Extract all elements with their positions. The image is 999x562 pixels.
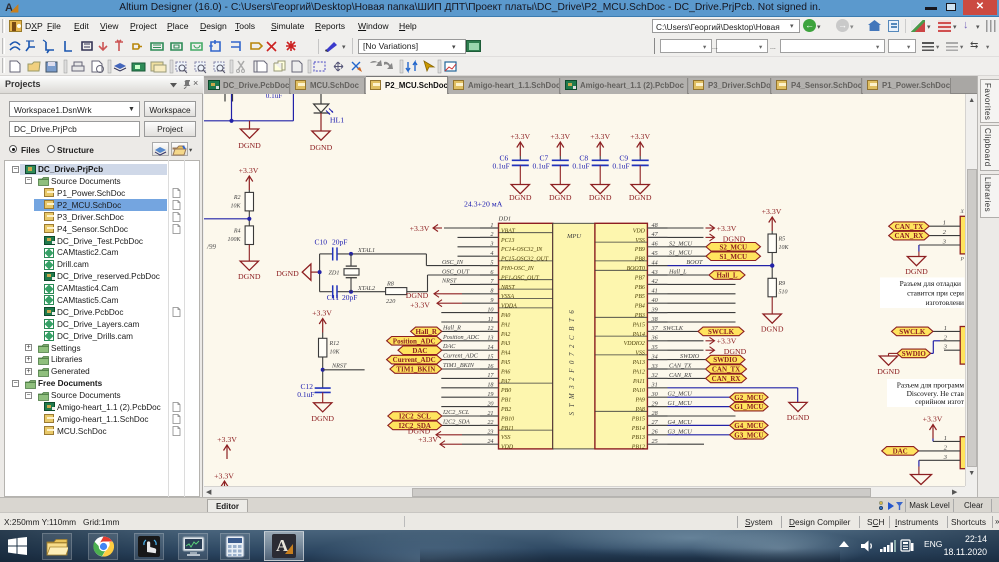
svg-text:43: 43	[652, 268, 658, 275]
svg-text:+3.3V: +3.3V	[717, 336, 737, 345]
junction XTAL2	[349, 277, 353, 293]
svg-text:G3_MCU: G3_MCU	[734, 431, 763, 439]
port tag CAN_RX (connector)	[889, 231, 930, 240]
svg-text:NRST: NRST	[441, 277, 457, 284]
capacitor C6	[493, 153, 529, 170]
svg-text:PH0-OSC_IN: PH0-OSC_IN	[500, 266, 535, 272]
svg-text:26: 26	[652, 428, 659, 435]
wire R9 to ground	[771, 296, 773, 313]
svg-text:+3.3V: +3.3V	[418, 435, 438, 444]
svg-text:+3.3V: +3.3V	[410, 223, 430, 232]
wire blue to left edge	[204, 217, 249, 219]
svg-text:PB7: PB7	[634, 275, 646, 281]
junction crystal loop DGND	[318, 270, 322, 274]
wire pin15 Current_ADC	[442, 358, 480, 360]
wire pin37 SWCLK	[663, 324, 698, 331]
connector XP DAC (cut at edge)	[960, 436, 968, 468]
net label I2C2_SDA	[442, 418, 470, 425]
svg-text:MPU: MPU	[566, 233, 582, 240]
svg-text:G2_MCU: G2_MCU	[668, 390, 693, 397]
wire pin28	[668, 415, 736, 417]
capacitor C9	[612, 153, 648, 170]
net label DAC	[442, 343, 456, 350]
svg-text:CAN_RX: CAN_RX	[669, 371, 692, 378]
svg-text:40: 40	[652, 297, 659, 304]
port tag DAC (connector)	[882, 446, 919, 455]
connector2 pin1	[933, 324, 960, 331]
svg-text:CAN_RX: CAN_RX	[895, 232, 924, 240]
svg-text:PA7: PA7	[500, 378, 511, 384]
power port +3.3V pin48 VDD	[668, 223, 737, 232]
svg-text:0.1uF: 0.1uF	[493, 161, 510, 170]
junction top-left	[229, 118, 233, 122]
connector3 pin1	[933, 434, 960, 441]
svg-text:+3.3V: +3.3V	[410, 300, 430, 309]
svg-text:23: 23	[487, 428, 493, 435]
svg-text:0.1uF: 0.1uF	[533, 161, 550, 170]
svg-text:PB5: PB5	[634, 294, 645, 300]
capacitor C7	[533, 153, 569, 170]
svg-text:NRST: NRST	[331, 362, 347, 369]
power port +3.3V above C9	[630, 132, 650, 160]
svg-text:PA10: PA10	[632, 388, 645, 394]
resistor R8	[386, 280, 407, 305]
svg-text:PF1-OSC_OUT: PF1-OSC_OUT	[500, 275, 540, 281]
crystal ZD1	[328, 266, 359, 278]
wire pin22 I2C2_SDA	[442, 424, 480, 426]
svg-text:12: 12	[487, 325, 493, 332]
svg-text:PB12: PB12	[631, 444, 645, 450]
power port +3.3V above R12	[312, 308, 332, 338]
port tag I2C2_SDA	[388, 421, 442, 430]
svg-text:PB15: PB15	[631, 416, 645, 422]
wire pin3 PC14	[458, 245, 481, 247]
wire pin42	[668, 283, 736, 285]
svg-text:VSS: VSS	[635, 237, 645, 243]
port tag SWCLK (MCU)	[698, 327, 744, 336]
designator DD1	[498, 215, 512, 222]
svg-text:PA9: PA9	[635, 397, 645, 403]
svg-text:C11: C11	[327, 292, 339, 301]
svg-text:1: 1	[944, 434, 947, 441]
svg-text:9: 9	[490, 297, 493, 304]
svg-text:DGND: DGND	[311, 413, 334, 422]
svg-text:+3.3V: +3.3V	[923, 414, 943, 423]
ground DGND connector1	[905, 256, 928, 276]
svg-text:+3.3V: +3.3V	[239, 166, 259, 175]
svg-text:24.3+20 мА: 24.3+20 мА	[464, 199, 503, 208]
svg-text:CAN_TX: CAN_TX	[712, 365, 740, 373]
ground DGND below R4	[238, 261, 261, 281]
svg-text:PA2: PA2	[500, 331, 510, 337]
net label OSC_IN	[442, 259, 464, 266]
wire pin25	[668, 443, 705, 445]
wire R5 to junction	[771, 252, 773, 278]
svg-text:3: 3	[942, 238, 946, 245]
svg-text:20: 20	[487, 400, 494, 407]
svg-text:46: 46	[652, 240, 659, 247]
svg-text:21: 21	[487, 409, 493, 416]
svg-text:VDD: VDD	[501, 444, 514, 450]
wire C7 to ground	[559, 165, 561, 184]
net label NRST (at R12)	[331, 362, 347, 369]
wire connector3 pin3 to ground	[918, 460, 920, 474]
svg-text:PA14: PA14	[632, 331, 645, 337]
ground port DGND pin8 VSSA	[406, 290, 480, 300]
svg-text:DAC: DAC	[442, 343, 456, 350]
svg-text:24: 24	[487, 438, 493, 445]
svg-text:41: 41	[652, 287, 658, 294]
capacitor C12	[297, 382, 330, 399]
svg-text:PB14: PB14	[631, 425, 645, 431]
svg-text:5: 5	[490, 259, 493, 266]
wire pin39	[668, 311, 736, 313]
svg-text:+3.3V: +3.3V	[590, 132, 610, 141]
wire pin32 CAN_RX	[668, 371, 706, 378]
svg-text:R12: R12	[329, 340, 340, 346]
port tag CAN_TX (connector)	[889, 221, 930, 230]
LED HL1	[314, 94, 345, 125]
net label XTAL1	[357, 247, 375, 254]
svg-text:48: 48	[652, 221, 659, 228]
svg-text:PA4: PA4	[500, 350, 510, 356]
resistor R5	[768, 234, 790, 253]
svg-text:VSS: VSS	[501, 435, 511, 441]
svg-text:PC14-OSC32_IN: PC14-OSC32_IN	[500, 247, 543, 253]
power port +3.3V pin36 VDDIO2	[668, 336, 737, 345]
svg-text:PC13: PC13	[500, 237, 514, 243]
svg-text:XTAL2: XTAL2	[357, 284, 375, 291]
svg-text:PB0: PB0	[500, 388, 511, 394]
wire pin13 Position_ADC	[442, 339, 480, 341]
svg-text:19: 19	[487, 391, 493, 398]
wire pin38	[668, 321, 736, 323]
wire pin2 PC13	[458, 236, 481, 238]
wire R12 to C12 junction	[322, 357, 324, 388]
port tag SWCLK (connector)	[892, 327, 934, 336]
wire pin45 S1_MCU	[668, 249, 707, 256]
wire XTAL1 to OSC_IN	[426, 253, 480, 265]
power port +3.3V above C6	[510, 132, 530, 160]
svg-text:+3.3V: +3.3V	[550, 132, 570, 141]
ground DGND below C7	[549, 184, 572, 201]
wire pin26 G3_MCU	[668, 428, 730, 435]
svg-text:SWDIO: SWDIO	[713, 356, 738, 364]
wire pin34 SWDIO	[668, 353, 709, 360]
svg-text:10: 10	[487, 306, 494, 313]
svg-text:R4: R4	[233, 227, 241, 234]
resistor R12	[319, 338, 341, 357]
svg-text:SWCLK: SWCLK	[899, 328, 926, 336]
wire crystal loop	[320, 253, 427, 291]
svg-text:PA6: PA6	[500, 369, 510, 375]
svg-text:G3_MCU: G3_MCU	[668, 428, 693, 435]
svg-text:PB3: PB3	[634, 313, 645, 319]
annotation text block 1	[880, 277, 965, 308]
net label Position_ADC	[442, 333, 480, 340]
svg-text:BOOT0: BOOT0	[627, 266, 645, 272]
svg-text:28: 28	[652, 409, 659, 416]
port tag G1_MCU	[730, 402, 769, 411]
svg-text:G1_MCU: G1_MCU	[734, 403, 763, 411]
svg-text:R2: R2	[233, 194, 241, 200]
port tag CAN_RX (MCU)	[706, 374, 747, 383]
svg-text:25: 25	[652, 438, 658, 445]
net label XTAL2	[357, 284, 375, 291]
svg-text:Position_ADC: Position_ADC	[442, 333, 480, 340]
svg-text:OSC_OUT: OSC_OUT	[442, 268, 470, 275]
wire pin18	[441, 386, 480, 388]
svg-text:DGND: DGND	[509, 192, 532, 201]
wire pin16 TIM1_BKIN	[442, 368, 480, 370]
capacitor C8	[572, 153, 608, 170]
svg-text:15: 15	[487, 353, 493, 360]
port tag SWDIO (MCU)	[706, 355, 745, 364]
ground DGND crystal (left-pointing)	[276, 264, 319, 280]
wire C12 to ground	[322, 392, 324, 402]
wire pin31 PA10 to ground	[668, 387, 798, 402]
svg-text:XTAL1: XTAL1	[357, 247, 375, 254]
port tag DAC	[398, 345, 442, 354]
svg-text:CAN_TX: CAN_TX	[669, 362, 692, 369]
svg-text:PB4: PB4	[634, 303, 645, 309]
svg-text:DGND: DGND	[276, 269, 299, 278]
svg-text:18: 18	[487, 381, 494, 388]
part number fragment /99	[206, 243, 216, 251]
wire pin19	[441, 396, 480, 398]
svg-text:3: 3	[943, 453, 947, 460]
svg-text:PC15-OSC32_OUT: PC15-OSC32_OUT	[500, 256, 549, 262]
svg-text:G4_MCU: G4_MCU	[668, 418, 693, 425]
svg-text:27: 27	[652, 419, 659, 426]
svg-text:STM32F072CBT6: STM32F072CBT6	[569, 305, 576, 415]
svg-text:CAN_RX: CAN_RX	[712, 375, 741, 383]
svg-text:34: 34	[651, 353, 658, 360]
wire pin33 CAN_TX	[668, 362, 706, 369]
svg-text:BOOT: BOOT	[686, 259, 703, 266]
svg-text:I2C2_SDA: I2C2_SDA	[442, 418, 470, 425]
wire pin11	[441, 321, 480, 323]
svg-text:+3.3V: +3.3V	[214, 471, 234, 480]
svg-text:3: 3	[943, 343, 947, 350]
svg-text:DGND: DGND	[761, 324, 784, 333]
svg-text:DGND: DGND	[310, 143, 333, 152]
svg-text:G2_MCU: G2_MCU	[734, 393, 763, 401]
ground DGND connector2	[877, 356, 900, 376]
port tag TIM1_BKIN	[390, 364, 442, 373]
port tag I2C2_SCL	[388, 411, 442, 420]
svg-text:DGND: DGND	[629, 192, 652, 201]
svg-text:DGND: DGND	[549, 192, 572, 201]
svg-text:44: 44	[652, 259, 658, 266]
svg-text:PA11: PA11	[632, 378, 645, 384]
svg-text:VDD: VDD	[633, 228, 646, 234]
power port +3.3V above R5	[762, 207, 782, 234]
svg-text:1: 1	[943, 219, 946, 226]
ground DGND below C12	[311, 402, 334, 422]
annotation current 24.3+20 mA	[464, 199, 503, 208]
svg-text:PB1: PB1	[500, 397, 511, 403]
svg-text:10K: 10K	[230, 203, 241, 209]
svg-text:PB11: PB11	[500, 425, 514, 431]
svg-text:32: 32	[651, 372, 658, 379]
svg-text:DAC: DAC	[412, 346, 427, 354]
resistor R2	[230, 192, 253, 211]
svg-text:VSSA: VSSA	[501, 294, 514, 300]
svg-text:изготовлени: изготовлени	[926, 298, 964, 307]
svg-text:16: 16	[487, 362, 494, 369]
port tag SWDIO (connector)	[897, 349, 931, 358]
svg-text:1: 1	[944, 324, 947, 331]
net label OSC_OUT	[442, 268, 470, 275]
svg-text:+3.3V: +3.3V	[510, 132, 530, 141]
svg-text:Hall_L: Hall_L	[716, 271, 737, 279]
svg-text:ставится при сери: ставится при сери	[907, 288, 964, 297]
svg-text:37: 37	[651, 325, 659, 332]
svg-text:S1_MCU: S1_MCU	[669, 249, 693, 256]
svg-text:PB13: PB13	[631, 435, 645, 441]
svg-text:33: 33	[651, 362, 658, 369]
resistor R4	[227, 225, 253, 244]
wire pin30 G2_MCU	[668, 390, 730, 397]
power port +3.3V pin24 VDD	[418, 435, 480, 448]
ground port DGND pin47 VSS	[668, 233, 746, 243]
wire pin44 BOOT0	[668, 259, 773, 266]
wire C6 to ground	[519, 165, 521, 184]
svg-text:PA3: PA3	[500, 341, 510, 347]
svg-text:14: 14	[487, 344, 493, 351]
svg-text:2: 2	[490, 231, 493, 238]
resistor R9	[768, 278, 788, 297]
port tag Hall_L	[709, 270, 745, 279]
svg-text:10K: 10K	[330, 349, 341, 355]
svg-text:DGND: DGND	[238, 141, 261, 150]
svg-text:SWCLK: SWCLK	[663, 324, 684, 331]
connector XP SWD (cut at edge)	[960, 326, 968, 364]
svg-text:PA12: PA12	[632, 369, 645, 375]
wire pin20	[441, 405, 480, 407]
svg-text:PB8: PB8	[634, 256, 645, 262]
svg-text:SWCLK: SWCLK	[708, 328, 735, 336]
wire pin29 G1_MCU	[668, 400, 730, 407]
wire pin46 S2_MCU	[668, 240, 707, 247]
power port +3.3V above C7	[550, 132, 570, 160]
svg-text:38: 38	[651, 315, 659, 322]
port tag S1_MCU	[706, 251, 761, 260]
svg-text:47: 47	[652, 231, 659, 238]
ground port DGND pin35 VSS	[668, 346, 747, 356]
svg-text:VSS: VSS	[635, 350, 645, 356]
svg-text:31: 31	[651, 381, 658, 388]
svg-text:PA8: PA8	[635, 407, 645, 413]
power port +3.3V bottom edge (cut)	[214, 471, 234, 495]
svg-text:3: 3	[489, 240, 493, 247]
junction BOOT0	[770, 263, 774, 267]
power port +3.3V pin9 VDDA	[410, 299, 480, 309]
wire connector2 pin2 to SWDIO	[931, 340, 940, 353]
power port +3.3V connector3	[923, 414, 943, 441]
svg-text:C10: C10	[314, 237, 327, 246]
svg-text:PA13: PA13	[632, 360, 645, 366]
svg-text:VBAT: VBAT	[501, 228, 516, 234]
ground DGND below R9	[761, 314, 784, 334]
wire pin41	[668, 292, 736, 294]
svg-text:серийном изгот: серийном изгот	[915, 397, 965, 406]
port tag CAN_TX (MCU)	[706, 364, 747, 373]
wire pin17	[441, 377, 480, 379]
connector2 pin3	[943, 343, 960, 350]
capacitor C10	[314, 237, 347, 260]
connector3 pin3	[919, 453, 960, 460]
ground DGND below C8	[589, 184, 612, 201]
svg-text:PA5: PA5	[500, 360, 510, 366]
svg-text:17: 17	[487, 372, 494, 379]
wire NRST	[323, 368, 365, 370]
svg-text:R5: R5	[778, 236, 786, 242]
svg-text:Hall_R: Hall_R	[442, 324, 461, 331]
svg-text:Current_ADC: Current_ADC	[393, 356, 436, 364]
junction NRST	[321, 367, 325, 371]
svg-text:DGND: DGND	[787, 413, 810, 422]
wire net top-left	[204, 94, 293, 121]
connector1 pin3	[919, 238, 960, 245]
ground port DGND pin23 VSS	[408, 426, 480, 438]
wire pin27 G4_MCU	[668, 418, 730, 425]
svg-text:0.1uF: 0.1uF	[297, 390, 314, 399]
wire pin4 PC15	[458, 255, 481, 257]
connector3 pin2	[919, 444, 961, 451]
svg-text:100K: 100K	[227, 236, 241, 242]
svg-text:Hall_R: Hall_R	[416, 328, 438, 336]
connector1 pin1	[929, 219, 960, 226]
svg-text:20pF: 20pF	[342, 292, 357, 301]
ground DGND top-left	[238, 120, 261, 149]
svg-text:R9: R9	[778, 280, 786, 286]
port tag Current_ADC	[387, 355, 442, 364]
net label NRST pin7	[441, 277, 480, 284]
svg-text:35: 35	[651, 344, 658, 351]
svg-text:DGND: DGND	[406, 291, 429, 300]
svg-text:+3.3V: +3.3V	[762, 207, 782, 216]
svg-text:30: 30	[651, 391, 659, 398]
svg-text:NRST: NRST	[500, 284, 515, 290]
svg-text:PA1: PA1	[500, 322, 510, 328]
svg-text:0.1uF: 0.1uF	[266, 94, 283, 100]
svg-text:DGND: DGND	[238, 272, 261, 281]
svg-text:+3.3V: +3.3V	[312, 308, 332, 317]
svg-text:PB9: PB9	[634, 247, 645, 253]
wire XTAL2/R8 to OSC_OUT	[407, 275, 480, 292]
svg-text:0.1uF: 0.1uF	[612, 161, 629, 170]
svg-text:Position_ADC: Position_ADC	[393, 337, 436, 345]
svg-text:PB6: PB6	[634, 284, 645, 290]
wire SWDIO to ground	[889, 353, 898, 356]
wire connector1 pin3 to ground	[918, 245, 920, 257]
junction XTAL1	[349, 251, 353, 265]
svg-text:G4_MCU: G4_MCU	[734, 422, 763, 430]
svg-text:13: 13	[487, 334, 493, 341]
svg-text:/99: /99	[206, 243, 216, 251]
wire pin40	[668, 302, 736, 304]
annotation text block 2	[887, 379, 965, 407]
svg-text:PA0: PA0	[500, 313, 510, 319]
svg-text:VDDA: VDDA	[501, 303, 517, 309]
power port +3.3V above C8	[590, 132, 610, 160]
svg-text:+3.3V: +3.3V	[717, 223, 737, 232]
svg-text:ZD1: ZD1	[328, 269, 339, 276]
svg-text:Hall_L: Hall_L	[668, 268, 687, 275]
svg-text:CAN_TX: CAN_TX	[895, 222, 923, 230]
